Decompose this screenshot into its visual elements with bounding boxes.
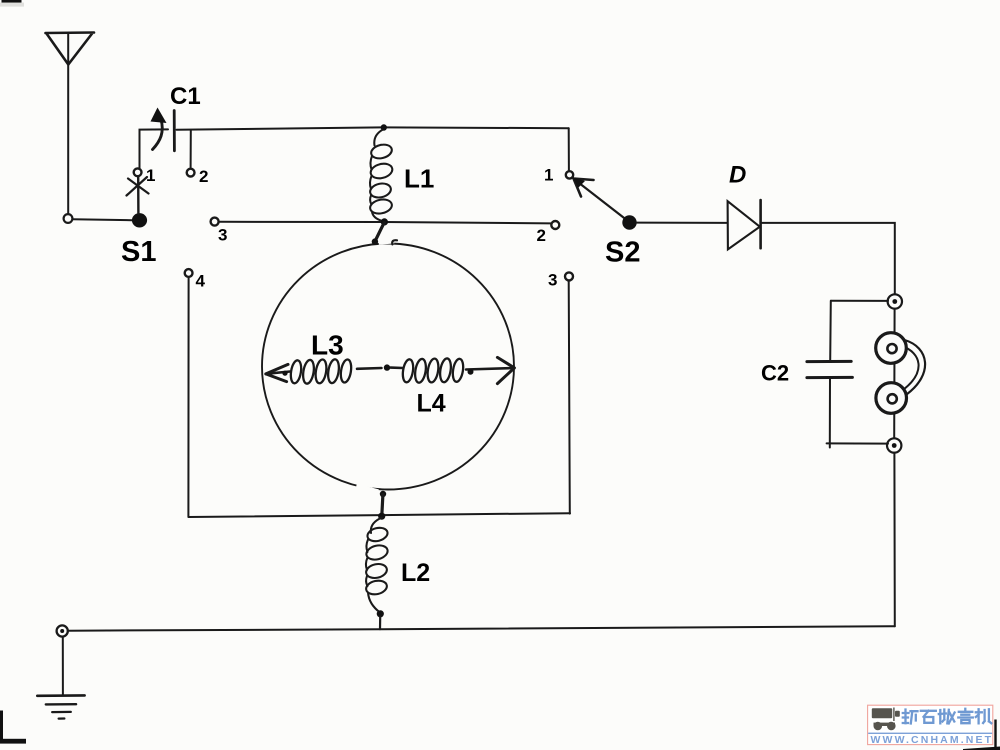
switch S1 common xyxy=(132,213,147,227)
inductor L3 xyxy=(289,359,352,385)
svg-text:3: 3 xyxy=(218,226,227,245)
C2 bottom branch wire xyxy=(827,442,888,444)
wire S1 contact3 to S2 contact2 xyxy=(219,222,551,224)
svg-text:D: D xyxy=(729,162,746,189)
svg-text:L2: L2 xyxy=(401,559,430,587)
terminal top right xyxy=(888,294,902,308)
wire L2 to ground bus xyxy=(379,617,381,630)
variometer circle xyxy=(262,244,514,490)
wire loop bottom xyxy=(188,513,570,517)
S2 contact 1 xyxy=(566,171,573,178)
watermark chinese title strokes xyxy=(903,709,992,724)
hook at top gap xyxy=(392,240,397,244)
wire bottom terminal down right side xyxy=(893,453,895,626)
S2 contact 2 xyxy=(551,221,559,229)
svg-text:L1: L1 xyxy=(404,164,434,194)
svg-text:L4: L4 xyxy=(417,390,446,418)
C2 bottom stub xyxy=(829,378,831,448)
svg-text:1: 1 xyxy=(146,166,155,185)
scan artifact bottom-left xyxy=(0,711,26,744)
watermark icon cart xyxy=(872,708,900,731)
scan artifact top-left xyxy=(0,0,24,7)
wire diode to right corner, down to top terminal xyxy=(762,223,895,294)
watermark cnham box xyxy=(868,705,993,746)
S1 wiper arm xyxy=(137,177,140,214)
wire ground bus bottom xyxy=(68,626,895,631)
inductor L4 xyxy=(401,358,464,384)
svg-text:2: 2 xyxy=(537,226,546,245)
svg-text:S2: S2 xyxy=(605,237,640,269)
wire antenna to S1 xyxy=(73,219,133,220)
wire contact2 stub xyxy=(190,131,192,169)
svg-text:L3: L3 xyxy=(311,330,344,361)
scan artifact bottom-right edge xyxy=(963,720,1000,750)
S1 contact 2 xyxy=(187,169,195,177)
node L1 bottom xyxy=(381,218,388,225)
S2 contact 3 xyxy=(565,272,573,280)
inductor L2 xyxy=(365,518,389,613)
S1 contact 4 xyxy=(185,269,193,277)
S1 contact 3 xyxy=(211,218,219,226)
ground xyxy=(37,695,84,718)
wire S2 contact3 down right side of loop xyxy=(569,281,570,514)
wire L1 bottom to circle top xyxy=(375,223,384,242)
inductor L1 xyxy=(369,129,394,222)
switch S2 common xyxy=(622,215,636,229)
C2 top branch wire xyxy=(831,300,888,302)
wire ground stub xyxy=(62,637,64,695)
svg-text:4: 4 xyxy=(196,272,206,291)
wire C1 to S2 contact1 (top wire) xyxy=(177,127,569,129)
wire contact4 down left side of loop xyxy=(187,277,189,517)
capacitor C1 xyxy=(151,108,175,151)
ground terminal xyxy=(57,625,68,636)
svg-text:2: 2 xyxy=(199,167,208,186)
node L2 bottom xyxy=(377,610,384,617)
wire circle bottom to loop bottom xyxy=(382,495,383,516)
switch S2 arm arrow xyxy=(573,178,628,222)
C2 top stub xyxy=(829,301,832,361)
S1 contact 1 xyxy=(134,168,142,176)
svg-text:C1: C1 xyxy=(170,83,201,110)
svg-text:C2: C2 xyxy=(761,361,789,386)
terminal bottom right xyxy=(887,438,901,452)
node circle bottom xyxy=(380,491,386,497)
svg-text:3: 3 xyxy=(548,271,557,290)
capacitor C2 xyxy=(807,361,853,377)
diode D xyxy=(728,200,761,249)
earphone xyxy=(876,333,925,414)
svg-text:1: 1 xyxy=(544,166,553,185)
watermark divider line xyxy=(868,733,992,734)
node arrow centre xyxy=(384,364,390,370)
node L1 top xyxy=(381,124,387,130)
svg-text:S1: S1 xyxy=(121,236,156,268)
wire S2 contact1 stub down from top wire xyxy=(568,128,570,171)
node circle top xyxy=(372,238,378,244)
antenna xyxy=(46,33,95,214)
node arrow left xyxy=(282,371,287,376)
antenna terminal xyxy=(64,214,73,223)
wire S1 contact1 to C1 xyxy=(140,129,169,168)
wire S2 common to diode xyxy=(637,222,727,224)
variometer arrow with L3 L4 xyxy=(266,357,515,383)
node arrow right xyxy=(468,369,474,375)
node L2 top xyxy=(378,513,385,520)
wire terminal to earphone and between parts xyxy=(893,309,895,438)
